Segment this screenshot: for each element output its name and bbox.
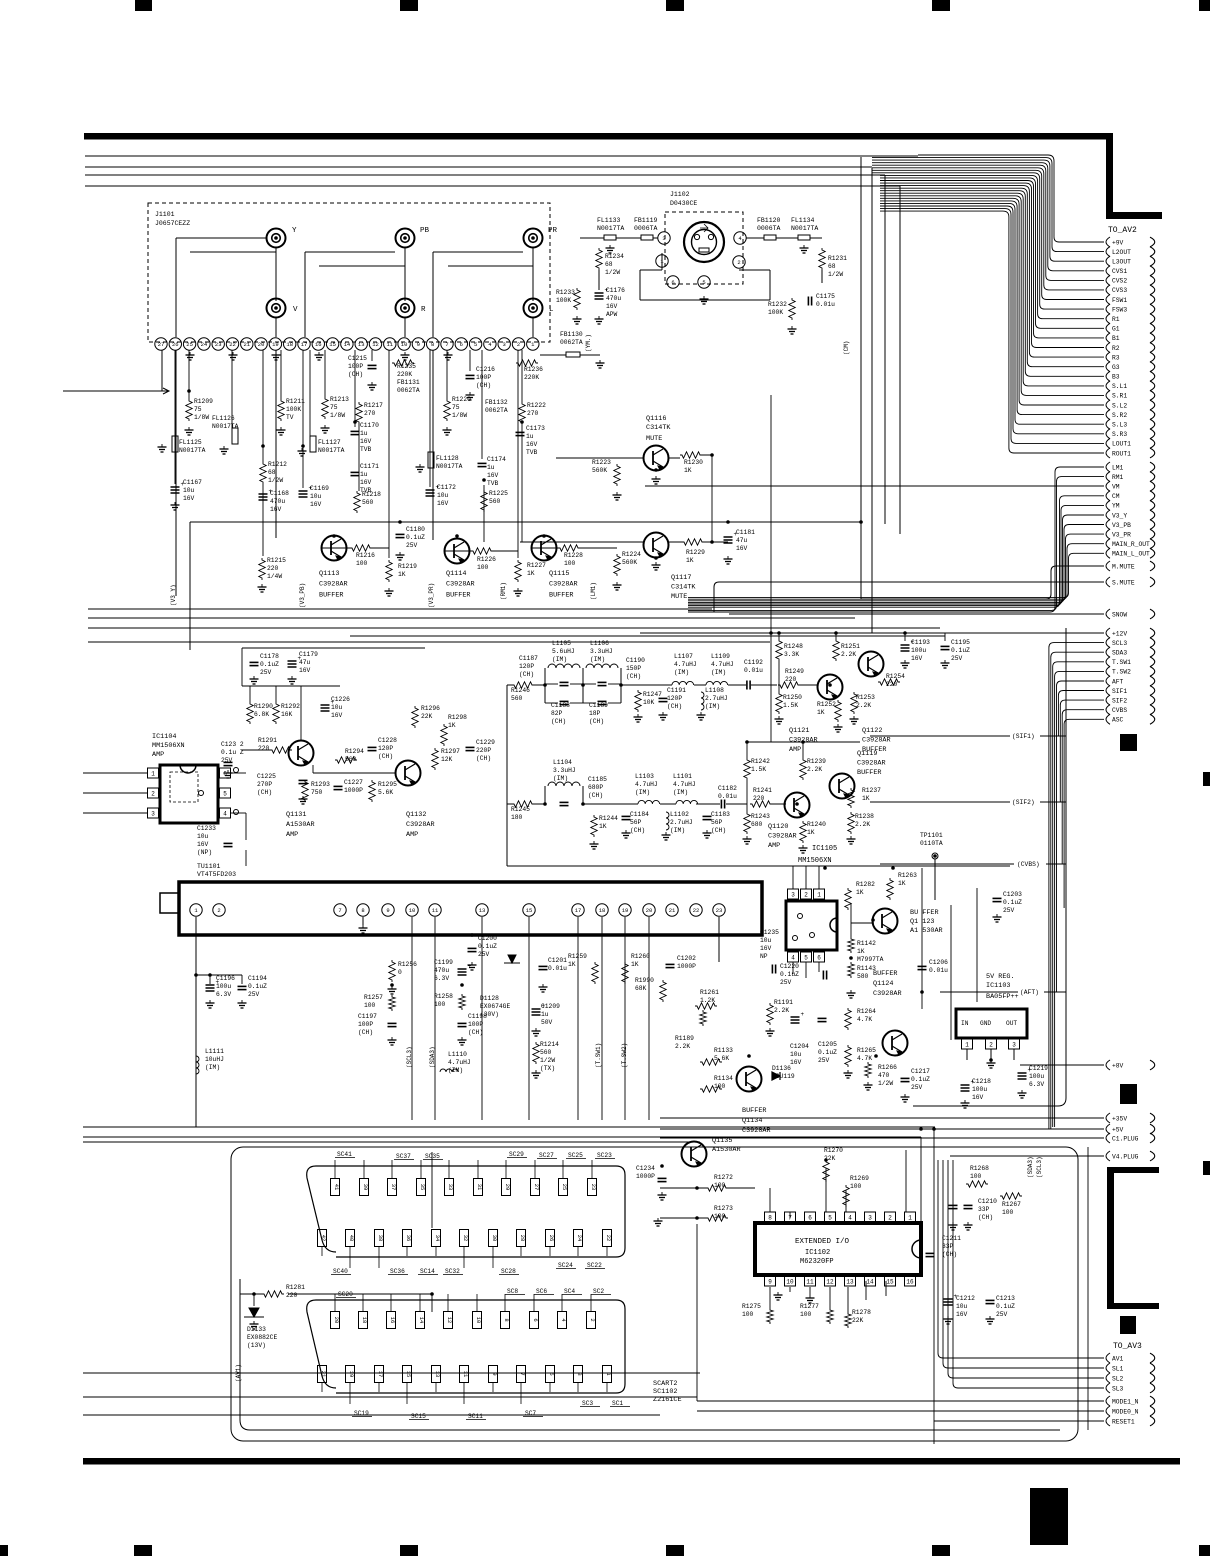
svg-text:470u: 470u bbox=[434, 967, 449, 974]
svg-text:Q1117: Q1117 bbox=[671, 574, 691, 582]
svg-text:R1211: R1211 bbox=[286, 398, 305, 405]
svg-text:FB1120: FB1120 bbox=[757, 217, 781, 224]
svg-text:(30V): (30V) bbox=[480, 1011, 499, 1018]
svg-text:(IM): (IM) bbox=[552, 656, 567, 663]
svg-text:R1282: R1282 bbox=[856, 881, 875, 888]
svg-text:10u: 10u bbox=[310, 493, 322, 500]
svg-text:C3928AR: C3928AR bbox=[862, 737, 891, 745]
svg-text:2.2K: 2.2K bbox=[675, 1043, 690, 1050]
svg-text:SC27: SC27 bbox=[539, 1152, 554, 1159]
svg-text:SC36: SC36 bbox=[390, 1268, 405, 1275]
svg-text:4.7uHJ: 4.7uHJ bbox=[635, 781, 658, 788]
svg-text:1/8W: 1/8W bbox=[194, 414, 209, 421]
svg-text:SC41: SC41 bbox=[337, 1151, 352, 1158]
svg-text:V3_Y: V3_Y bbox=[1112, 512, 1127, 519]
svg-text:16V: 16V bbox=[972, 1094, 984, 1101]
svg-text:50V: 50V bbox=[541, 1019, 553, 1026]
svg-text:6.3V: 6.3V bbox=[216, 991, 231, 998]
svg-text:220: 220 bbox=[286, 1292, 298, 1299]
svg-text:(LM1): (LM1) bbox=[590, 582, 597, 600]
svg-text:R1296: R1296 bbox=[421, 705, 440, 712]
svg-text:MUTE: MUTE bbox=[646, 435, 662, 443]
svg-text:Y: Y bbox=[292, 227, 297, 235]
svg-text:(YM.): (YM.) bbox=[585, 334, 592, 352]
svg-text:Q1135: Q1135 bbox=[712, 1137, 732, 1145]
svg-text:220: 220 bbox=[753, 795, 765, 802]
svg-text:7: 7 bbox=[338, 907, 341, 914]
svg-text:R1254: R1254 bbox=[886, 673, 905, 680]
svg-text:SC4: SC4 bbox=[564, 1288, 575, 1295]
svg-text:2: 2 bbox=[217, 907, 220, 914]
svg-text:Q1116: Q1116 bbox=[646, 415, 666, 423]
svg-text:AMP: AMP bbox=[152, 751, 164, 759]
svg-text:56P: 56P bbox=[630, 819, 642, 826]
svg-text:R1297: R1297 bbox=[441, 748, 460, 755]
svg-text:2.2K: 2.2K bbox=[856, 702, 871, 709]
svg-text:AMP: AMP bbox=[286, 831, 298, 839]
svg-text:SC6: SC6 bbox=[536, 1288, 547, 1295]
svg-text:S.L1: S.L1 bbox=[1112, 383, 1127, 390]
svg-text:L1103: L1103 bbox=[635, 773, 654, 780]
svg-text:+: + bbox=[801, 1011, 805, 1018]
svg-text:SC8: SC8 bbox=[507, 1288, 518, 1295]
svg-text:C1202: C1202 bbox=[677, 955, 696, 962]
svg-text:220P: 220P bbox=[476, 747, 491, 754]
svg-text:15: 15 bbox=[526, 907, 533, 914]
svg-text:23: 23 bbox=[590, 1184, 597, 1191]
svg-text:4.7K: 4.7K bbox=[857, 1055, 872, 1062]
svg-text:V3_PB: V3_PB bbox=[1112, 522, 1131, 529]
svg-text:3: 3 bbox=[868, 1215, 872, 1222]
svg-text:(CH): (CH) bbox=[626, 673, 641, 680]
svg-text:T.SW2: T.SW2 bbox=[1112, 669, 1131, 676]
svg-text:25V: 25V bbox=[478, 951, 490, 958]
svg-text:220: 220 bbox=[785, 676, 797, 683]
svg-text:17: 17 bbox=[575, 907, 582, 914]
svg-text:20: 20 bbox=[333, 1317, 340, 1324]
svg-text:S.L3: S.L3 bbox=[1112, 422, 1127, 429]
svg-text:25V: 25V bbox=[996, 1311, 1008, 1318]
svg-text:15: 15 bbox=[405, 1371, 412, 1378]
svg-text:11: 11 bbox=[386, 341, 393, 348]
svg-text:0110TA: 0110TA bbox=[920, 840, 943, 847]
svg-text:R: R bbox=[421, 306, 426, 314]
svg-text:SC11: SC11 bbox=[468, 1413, 483, 1420]
svg-text:SC35: SC35 bbox=[425, 1153, 440, 1160]
svg-text:SC1102: SC1102 bbox=[653, 1388, 677, 1396]
svg-text:33P: 33P bbox=[978, 1206, 990, 1213]
svg-text:Q1121: Q1121 bbox=[789, 727, 809, 735]
svg-text:C1212: C1212 bbox=[956, 1295, 975, 1302]
svg-text:R1250: R1250 bbox=[783, 694, 802, 701]
svg-text:16V: 16V bbox=[956, 1311, 968, 1318]
svg-text:R1293: R1293 bbox=[311, 781, 330, 788]
svg-text:9: 9 bbox=[491, 1372, 498, 1375]
svg-text:(CH): (CH) bbox=[476, 755, 491, 762]
svg-text:C1180: C1180 bbox=[406, 526, 425, 533]
svg-text:1: 1 bbox=[817, 892, 821, 899]
svg-text:0062TA: 0062TA bbox=[560, 339, 583, 346]
svg-text:16: 16 bbox=[389, 1317, 396, 1324]
svg-text:100u: 100u bbox=[216, 983, 231, 990]
svg-text:C1200: C1200 bbox=[478, 935, 497, 942]
svg-text:100: 100 bbox=[850, 1183, 862, 1190]
svg-text:0.1u Z: 0.1u Z bbox=[221, 749, 244, 756]
svg-text:R1291: R1291 bbox=[258, 737, 277, 744]
svg-text:LM1: LM1 bbox=[1112, 464, 1124, 471]
svg-text:11: 11 bbox=[432, 907, 439, 914]
svg-text:R1191: R1191 bbox=[774, 999, 793, 1006]
svg-text:D1136: D1136 bbox=[772, 1065, 791, 1072]
svg-text:18: 18 bbox=[286, 341, 293, 348]
svg-text:4.7uHJ: 4.7uHJ bbox=[674, 661, 697, 668]
svg-text:C1170: C1170 bbox=[360, 422, 379, 429]
svg-text:(T.SW1): (T.SW1) bbox=[595, 1043, 602, 1068]
svg-text:1K: 1K bbox=[599, 823, 607, 830]
svg-text:100u: 100u bbox=[911, 647, 926, 654]
svg-text:13: 13 bbox=[479, 907, 486, 914]
svg-text:R1224: R1224 bbox=[622, 551, 641, 558]
svg-text:14: 14 bbox=[418, 1317, 425, 1324]
svg-text:AMP: AMP bbox=[406, 831, 418, 839]
svg-text:N0017TA: N0017TA bbox=[597, 225, 624, 232]
svg-text:(CH): (CH) bbox=[588, 792, 603, 799]
svg-text:(IM): (IM) bbox=[635, 789, 650, 796]
svg-text:R1212: R1212 bbox=[268, 461, 287, 468]
svg-text:2: 2 bbox=[804, 892, 808, 899]
svg-text:Q1122: Q1122 bbox=[862, 727, 882, 735]
svg-text:1u: 1u bbox=[360, 430, 368, 437]
svg-text:IN: IN bbox=[961, 1020, 969, 1027]
svg-text:(SDA3): (SDA3) bbox=[1027, 1156, 1034, 1178]
svg-text:SC19: SC19 bbox=[354, 1410, 369, 1417]
svg-text:(CH): (CH) bbox=[978, 1214, 993, 1221]
svg-text:C1206: C1206 bbox=[929, 959, 948, 966]
svg-text:8: 8 bbox=[361, 907, 364, 914]
svg-text:R1: R1 bbox=[1112, 316, 1120, 323]
svg-text:C1228: C1228 bbox=[378, 737, 397, 744]
svg-text:C1187: C1187 bbox=[519, 655, 538, 662]
svg-text:R1134: R1134 bbox=[714, 1075, 733, 1082]
svg-text:560: 560 bbox=[489, 498, 501, 505]
svg-text:R1222: R1222 bbox=[527, 402, 546, 409]
svg-text:MM1506XN: MM1506XN bbox=[798, 857, 832, 865]
svg-text:(CH): (CH) bbox=[589, 718, 604, 725]
svg-text:C1189: C1189 bbox=[589, 702, 608, 709]
svg-text:VM: VM bbox=[1112, 484, 1120, 491]
svg-text:SDA3: SDA3 bbox=[1112, 650, 1127, 657]
svg-text:75: 75 bbox=[330, 404, 338, 411]
svg-text:26: 26 bbox=[172, 341, 179, 348]
svg-text:1K: 1K bbox=[817, 709, 825, 716]
svg-text:SC24: SC24 bbox=[558, 1262, 573, 1269]
svg-text:16V: 16V bbox=[360, 438, 372, 445]
svg-text:1.5K: 1.5K bbox=[783, 702, 798, 709]
svg-text:R1249: R1249 bbox=[785, 668, 804, 675]
svg-text:FL1134: FL1134 bbox=[791, 217, 815, 224]
svg-text:15: 15 bbox=[329, 341, 336, 348]
svg-text:C1172: C1172 bbox=[437, 484, 456, 491]
svg-text:SC14: SC14 bbox=[420, 1268, 435, 1275]
svg-text:270P: 270P bbox=[257, 781, 272, 788]
svg-text:C1215: C1215 bbox=[348, 355, 367, 362]
svg-text:20: 20 bbox=[258, 341, 265, 348]
svg-text:5.6uHJ: 5.6uHJ bbox=[552, 648, 575, 655]
svg-text:C1175: C1175 bbox=[816, 293, 835, 300]
svg-text:100: 100 bbox=[477, 564, 489, 571]
svg-text:IC1103: IC1103 bbox=[986, 982, 1010, 990]
svg-text:G3: G3 bbox=[1112, 364, 1120, 371]
svg-text:18P: 18P bbox=[589, 710, 601, 717]
svg-text:6: 6 bbox=[817, 955, 821, 962]
svg-text:560: 560 bbox=[540, 1049, 552, 1056]
svg-text:22K: 22K bbox=[421, 713, 433, 720]
svg-text:SC22: SC22 bbox=[587, 1262, 602, 1269]
svg-text:(IM): (IM) bbox=[670, 827, 685, 834]
svg-text:BUFFER: BUFFER bbox=[319, 591, 343, 599]
svg-text:FB1132: FB1132 bbox=[485, 399, 508, 406]
svg-text:22: 22 bbox=[229, 341, 236, 348]
svg-text:100: 100 bbox=[1002, 1209, 1014, 1216]
svg-text:22K: 22K bbox=[852, 1317, 864, 1324]
svg-text:Q1115: Q1115 bbox=[549, 570, 569, 578]
svg-text:Q1120: Q1120 bbox=[768, 823, 788, 831]
svg-text:L1109: L1109 bbox=[711, 653, 730, 660]
svg-text:100: 100 bbox=[434, 1001, 446, 1008]
svg-text:TO_AV2: TO_AV2 bbox=[1108, 226, 1137, 235]
svg-text:C3928AR: C3928AR bbox=[549, 581, 578, 589]
svg-text:20: 20 bbox=[646, 907, 653, 914]
svg-text:C1218: C1218 bbox=[972, 1078, 991, 1085]
svg-text:R1243: R1243 bbox=[751, 813, 770, 820]
svg-text:SIF2: SIF2 bbox=[1112, 697, 1127, 704]
svg-text:Q1114: Q1114 bbox=[446, 570, 466, 578]
svg-text:C1184: C1184 bbox=[630, 811, 649, 818]
svg-text:0.1uZ: 0.1uZ bbox=[478, 943, 497, 950]
svg-text:R1248: R1248 bbox=[784, 643, 803, 650]
svg-text:1/4W: 1/4W bbox=[267, 573, 282, 580]
svg-text:25V: 25V bbox=[780, 979, 792, 986]
svg-text:C1188: C1188 bbox=[551, 702, 570, 709]
svg-text:R1229: R1229 bbox=[686, 549, 705, 556]
svg-text:10u: 10u bbox=[956, 1303, 968, 1310]
svg-text:R1257: R1257 bbox=[364, 994, 383, 1001]
svg-text:FL1126: FL1126 bbox=[212, 415, 235, 422]
svg-text:R1268: R1268 bbox=[970, 1165, 989, 1172]
svg-text:1/2W: 1/2W bbox=[878, 1080, 893, 1087]
svg-text:750: 750 bbox=[311, 789, 323, 796]
svg-text:(AFT): (AFT) bbox=[1020, 989, 1039, 996]
svg-text:2: 2 bbox=[888, 1215, 892, 1222]
svg-text:100: 100 bbox=[564, 560, 576, 567]
svg-text:25V: 25V bbox=[911, 1084, 923, 1091]
svg-text:10u: 10u bbox=[183, 487, 195, 494]
svg-text:29: 29 bbox=[504, 1184, 511, 1191]
svg-text:MUTE: MUTE bbox=[671, 593, 687, 601]
svg-text:16V: 16V bbox=[526, 441, 538, 448]
svg-text:RESET1: RESET1 bbox=[1112, 1418, 1135, 1425]
svg-text:+8V: +8V bbox=[1112, 1062, 1124, 1069]
svg-text:AFT: AFT bbox=[1112, 678, 1124, 685]
svg-text:R1231: R1231 bbox=[828, 255, 847, 262]
svg-text:18: 18 bbox=[361, 1317, 368, 1324]
svg-text:(CH): (CH) bbox=[257, 789, 272, 796]
svg-text:V3_PR: V3_PR bbox=[1112, 531, 1131, 538]
svg-text:C1225: C1225 bbox=[257, 773, 276, 780]
svg-text:7: 7 bbox=[788, 1215, 792, 1222]
svg-text:1K: 1K bbox=[568, 961, 576, 968]
svg-text:C1191: C1191 bbox=[667, 687, 686, 694]
svg-text:(SIF1): (SIF1) bbox=[1012, 733, 1035, 740]
svg-text:47u: 47u bbox=[736, 537, 748, 544]
svg-text:R1264: R1264 bbox=[857, 1008, 876, 1015]
svg-text:(CVBS): (CVBS) bbox=[1017, 861, 1040, 868]
svg-text:26: 26 bbox=[548, 1235, 555, 1242]
svg-text:100P: 100P bbox=[468, 1021, 483, 1028]
svg-text:L1108: L1108 bbox=[705, 687, 724, 694]
svg-text:(V3_PB): (V3_PB) bbox=[299, 583, 306, 608]
svg-text:C1168: C1168 bbox=[270, 490, 289, 497]
svg-text:220: 220 bbox=[258, 745, 270, 752]
svg-text:FB1119: FB1119 bbox=[634, 217, 658, 224]
svg-text:11: 11 bbox=[806, 1279, 814, 1286]
svg-text:C1203: C1203 bbox=[1003, 891, 1022, 898]
svg-text:(CH): (CH) bbox=[378, 753, 393, 760]
svg-text:1000P: 1000P bbox=[636, 1173, 655, 1180]
svg-text:34: 34 bbox=[434, 1235, 441, 1242]
svg-text:37: 37 bbox=[390, 1184, 397, 1191]
svg-text:C1197: C1197 bbox=[358, 1013, 377, 1020]
svg-text:68: 68 bbox=[268, 469, 276, 476]
svg-text:EX0674GE: EX0674GE bbox=[480, 1003, 510, 1010]
svg-text:L1110: L1110 bbox=[448, 1051, 467, 1058]
svg-text:560: 560 bbox=[345, 756, 357, 763]
svg-text:MM1506XN: MM1506XN bbox=[152, 742, 185, 750]
svg-text:SC3: SC3 bbox=[582, 1400, 593, 1407]
svg-text:S.R2: S.R2 bbox=[1112, 412, 1127, 419]
svg-text:0.01u: 0.01u bbox=[816, 301, 835, 308]
svg-text:12: 12 bbox=[446, 1317, 453, 1324]
svg-text:36: 36 bbox=[405, 1235, 412, 1242]
svg-text:100P: 100P bbox=[348, 363, 363, 370]
svg-text:C1210: C1210 bbox=[978, 1198, 997, 1205]
svg-text:C1199: C1199 bbox=[434, 959, 453, 966]
svg-text:APW: APW bbox=[606, 311, 618, 318]
svg-text:Q1124: Q1124 bbox=[873, 980, 893, 988]
svg-text:1: 1 bbox=[151, 771, 155, 778]
svg-text:(SIF2): (SIF2) bbox=[1012, 799, 1035, 806]
svg-text:PB: PB bbox=[420, 227, 430, 235]
svg-text:100K: 100K bbox=[286, 406, 301, 413]
svg-text:R1213: R1213 bbox=[330, 396, 349, 403]
svg-text:9: 9 bbox=[417, 341, 420, 348]
svg-text:C1204: C1204 bbox=[790, 1043, 809, 1050]
svg-text:LOUT1: LOUT1 bbox=[1112, 441, 1131, 448]
svg-text:R1990: R1990 bbox=[635, 977, 654, 984]
svg-text:1u: 1u bbox=[526, 433, 534, 440]
svg-text:16V: 16V bbox=[183, 495, 195, 502]
svg-text:0062TA: 0062TA bbox=[397, 387, 420, 394]
svg-text:1K: 1K bbox=[527, 570, 535, 577]
svg-text:L1101: L1101 bbox=[673, 773, 692, 780]
svg-text:0: 0 bbox=[398, 969, 402, 976]
svg-text:L1105: L1105 bbox=[552, 640, 571, 647]
svg-text:14: 14 bbox=[866, 1279, 874, 1286]
svg-text:R1216: R1216 bbox=[356, 552, 375, 559]
svg-text:Q1119: Q1119 bbox=[857, 750, 877, 758]
svg-text:16V: 16V bbox=[197, 841, 209, 848]
svg-text:1K: 1K bbox=[686, 557, 694, 564]
svg-text:TU1101: TU1101 bbox=[197, 863, 221, 870]
svg-text:1K: 1K bbox=[857, 948, 865, 955]
svg-text:1/2W: 1/2W bbox=[540, 1057, 555, 1064]
svg-text:C1194: C1194 bbox=[248, 975, 267, 982]
svg-text:3: 3 bbox=[662, 235, 665, 242]
svg-text:C1234: C1234 bbox=[636, 1165, 655, 1172]
svg-text:(SCL3): (SCL3) bbox=[1036, 1156, 1043, 1178]
svg-text:13: 13 bbox=[434, 1371, 441, 1378]
svg-text:(CH): (CH) bbox=[630, 827, 645, 834]
svg-text:C1190: C1190 bbox=[626, 657, 645, 664]
svg-text:220K: 220K bbox=[524, 374, 539, 381]
svg-text:R1246: R1246 bbox=[511, 687, 530, 694]
svg-text:1K: 1K bbox=[631, 961, 639, 968]
svg-text:470: 470 bbox=[878, 1072, 890, 1079]
svg-text:1000P: 1000P bbox=[344, 787, 363, 794]
svg-text:470u: 470u bbox=[270, 498, 285, 505]
svg-text:15: 15 bbox=[886, 1279, 894, 1286]
svg-text:C1196: C1196 bbox=[216, 975, 235, 982]
svg-text:Z2161CE: Z2161CE bbox=[653, 1396, 682, 1404]
svg-text:3: 3 bbox=[576, 1372, 583, 1375]
svg-text:10u: 10u bbox=[197, 833, 209, 840]
svg-text:R1235: R1235 bbox=[397, 363, 416, 370]
svg-text:25V: 25V bbox=[951, 655, 963, 662]
svg-text:6.8K: 6.8K bbox=[254, 711, 269, 718]
svg-text:R1215: R1215 bbox=[267, 557, 286, 564]
svg-text:4: 4 bbox=[848, 1215, 852, 1222]
svg-text:+9V: +9V bbox=[1112, 239, 1124, 246]
svg-text:2.2K: 2.2K bbox=[855, 821, 870, 828]
svg-text:C1195: C1195 bbox=[951, 639, 970, 646]
svg-text:T.SW1: T.SW1 bbox=[1112, 659, 1131, 666]
svg-text:1: 1 bbox=[908, 1215, 912, 1222]
svg-text:EX0882CE: EX0882CE bbox=[247, 1334, 277, 1341]
svg-text:FL1125: FL1125 bbox=[179, 439, 202, 446]
svg-text:C1.PLUG: C1.PLUG bbox=[1112, 1135, 1139, 1142]
svg-text:41: 41 bbox=[333, 1184, 340, 1191]
svg-text:R1241: R1241 bbox=[753, 787, 772, 794]
svg-text:N0017TA: N0017TA bbox=[791, 225, 818, 232]
svg-text:2.7uHJ: 2.7uHJ bbox=[705, 695, 728, 702]
svg-text:CVS3: CVS3 bbox=[1112, 287, 1127, 294]
svg-text:10u: 10u bbox=[331, 704, 343, 711]
svg-text:68K: 68K bbox=[635, 985, 647, 992]
svg-text:R1225: R1225 bbox=[489, 490, 508, 497]
svg-text:16: 16 bbox=[315, 341, 322, 348]
svg-text:1K: 1K bbox=[684, 467, 692, 474]
svg-text:10: 10 bbox=[786, 1279, 794, 1286]
svg-text:4: 4 bbox=[791, 955, 795, 962]
svg-text:150P: 150P bbox=[626, 665, 641, 672]
svg-text:R1269: R1269 bbox=[850, 1175, 869, 1182]
svg-text:+35V: +35V bbox=[1112, 1115, 1127, 1122]
svg-text:19: 19 bbox=[272, 341, 279, 348]
svg-text:SC7: SC7 bbox=[525, 1410, 536, 1417]
svg-text:FL1128: FL1128 bbox=[436, 455, 459, 462]
svg-text:39: 39 bbox=[362, 1184, 369, 1191]
svg-text:R1240: R1240 bbox=[807, 821, 826, 828]
